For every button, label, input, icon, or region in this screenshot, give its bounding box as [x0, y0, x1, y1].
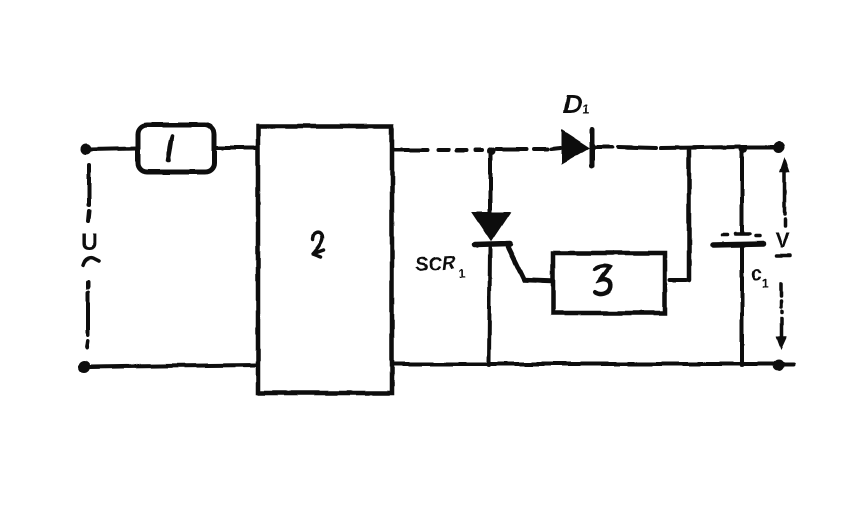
source U dashed lead lower	[87, 282, 88, 348]
thyristor SCR1	[473, 213, 552, 281]
label C1	[751, 263, 769, 290]
wire block 3 output to riser	[670, 278, 686, 282]
svg-text:1: 1	[459, 267, 466, 281]
label 2 inside block 2	[313, 232, 324, 257]
label tilde of source	[83, 258, 99, 265]
svg-text:U: U	[81, 229, 98, 256]
svg-text:c: c	[751, 263, 762, 285]
wire dashed: junction to diode D1	[496, 148, 560, 149]
wire top-left terminal to block 1	[90, 148, 138, 149]
block 3	[553, 253, 665, 313]
node junction SCR anode on top rail	[487, 147, 495, 155]
diode D1	[562, 129, 592, 166]
node bottom-left terminal	[78, 361, 90, 373]
node top-right terminal	[774, 142, 785, 153]
wire SCR branch vertical (anode side)	[488, 153, 492, 212]
svg-text:1: 1	[762, 276, 769, 290]
wire dashed: block 2 to SCR junction	[394, 148, 482, 152]
node bottom-right terminal	[773, 360, 784, 371]
wire bottom rail right of block 2	[392, 362, 793, 366]
node top-left terminal	[81, 144, 92, 155]
svg-text:SCR: SCR	[415, 252, 457, 276]
label 1 inside block 1	[168, 136, 172, 161]
block 2	[258, 126, 392, 393]
capacitor C1	[713, 151, 763, 363]
node junction capacitor on top rail	[739, 145, 747, 153]
source U dashed lead upper	[88, 165, 89, 221]
output voltage arrow V upper part	[781, 159, 789, 226]
wire bottom rail left of block 2	[90, 365, 257, 367]
output voltage arrow V lower part	[777, 256, 790, 348]
svg-text:1: 1	[582, 101, 589, 116]
node junction SCR on bottom rail	[486, 361, 492, 367]
svg-text:D: D	[563, 89, 582, 119]
svg-text:V: V	[775, 228, 790, 253]
node junction capacitor on bottom rail	[739, 361, 745, 367]
label 3 inside block 3	[595, 266, 610, 294]
wire diode to top-right terminal	[595, 147, 775, 148]
node junction block3 riser on top rail	[687, 150, 692, 280]
label SCR1	[415, 252, 466, 281]
wire SCR cathode to bottom rail	[489, 248, 490, 364]
block 1	[138, 125, 214, 172]
wire block 1 to block 2	[214, 146, 258, 150]
